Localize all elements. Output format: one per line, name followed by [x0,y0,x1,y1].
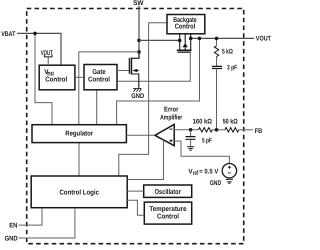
wire EN pin [19,208,43,225]
ground Q1 chassis [133,89,141,92]
wire error amp output to regulator [126,134,154,136]
dashed IC boundary [27,9,244,244]
wire VBAT to regulator [35,33,52,124]
svg-text:Temperature: Temperature [149,206,186,213]
node SW-output junction [137,39,141,43]
wire to FB pin [239,129,253,131]
svg-text:Oscillator: Oscillator [155,188,181,196]
svg-text:GND: GND [131,93,144,100]
svg-text:ref: ref [193,170,199,177]
transistor Q1 gate bar [128,58,130,74]
svg-text:VBAT: VBAT [1,31,16,38]
resistor R1 5k [216,38,218,45]
wire SW to rectifier source [139,39,180,41]
resistor R2 160k [199,128,213,132]
svg-text:3 pF: 3 pF [227,64,237,71]
wire GND pin [19,208,75,238]
wire FB minus input [174,129,198,131]
block Vmax Control [39,65,75,90]
capacitor C1 3pF [212,66,222,68]
wire control logic to temperature control [127,200,144,215]
svg-text:GND: GND [210,180,221,187]
transistor Q1 channel bar [130,58,132,75]
wire control logic to oscillator [127,190,144,192]
wire VBAT input [17,33,61,65]
svg-text:Regulator: Regulator [65,129,93,137]
block Regulator [32,125,126,143]
svg-text:Amplifier: Amplifier [160,113,182,121]
transistor Q1 gate wire [117,70,129,72]
wire plus input to Vref [174,141,229,163]
block Gate Control [84,65,117,90]
transistor Q2 gate bar [178,51,191,53]
wire between divider resistors [212,129,225,131]
svg-text:50 kΩ: 50 kΩ [223,119,239,126]
capacitor C2 5pF [190,130,192,137]
svg-text:= 0.5 V: = 0.5 V [199,168,218,175]
resistor R3 50k [225,128,239,132]
wire VOUT feedback to regulator [117,38,200,124]
svg-text:Gate: Gate [92,69,105,76]
wire rectifier gate from gate control [117,52,190,81]
svg-text:Control: Control [157,213,179,221]
transistor Q2 body pin with arrow [184,34,186,43]
wire backgate to control logic [119,23,167,176]
node VOUT feedback tap [198,37,202,41]
svg-text:VOUT: VOUT [41,50,53,57]
voltage source V1 Vref [222,164,236,178]
node Q2 source tap [178,39,182,43]
transistor Q2 drain leg [190,34,192,51]
node FB-5pF junction [189,128,193,132]
svg-text:160 kΩ: 160 kΩ [193,119,213,126]
wire VOUT stub into Vmax Control [47,57,49,65]
block Oscillator [144,185,192,197]
svg-text:Control Logic: Control Logic [59,189,99,197]
transistor Q2 source leg [179,34,181,51]
node FB divider junction [215,128,219,132]
wire rectifier drain to VOUT [191,37,255,39]
block Backgate Control [167,15,205,34]
op-amp U1 error amplifier [155,124,174,145]
svg-text:Backgate: Backgate [173,16,197,24]
wire SW vertical [138,6,140,59]
arrow head on VOUT stub [44,55,52,57]
block Temperature Control [144,202,191,224]
transistor Q1 source lead [131,74,138,88]
wire error amp to control logic [127,140,163,180]
svg-text:Control: Control [88,76,110,84]
transistor Q1 drain lead [131,52,139,58]
node SW-sense junction [137,50,141,54]
wire regulator to control logic [78,143,80,176]
wire gate control to regulator [96,90,98,125]
svg-text:Control: Control [175,23,196,31]
ground C2 [187,147,194,151]
node VBAT junction [33,32,37,36]
svg-text:5 pF: 5 pF [202,137,212,144]
transistor Q1 body arrow [132,69,137,72]
wire SW sense to regulator [79,52,139,125]
transistor Q2 channel bar [177,49,192,51]
wire Vref to ground [228,178,230,179]
node Q2 drain tap [189,37,193,41]
svg-text:Control: Control [45,76,67,84]
svg-text:FB: FB [255,128,263,135]
block Control Logic [31,176,127,208]
node R1 top [215,37,219,41]
wire Vmax to Gate Control [75,76,84,78]
ground V1 [226,179,233,183]
svg-text:VOUT: VOUT [256,35,272,42]
svg-text:5 kΩ: 5 kΩ [222,48,233,55]
svg-text:Error: Error [164,107,179,114]
svg-text:EN: EN [9,222,17,229]
svg-text:GND: GND [5,236,18,243]
